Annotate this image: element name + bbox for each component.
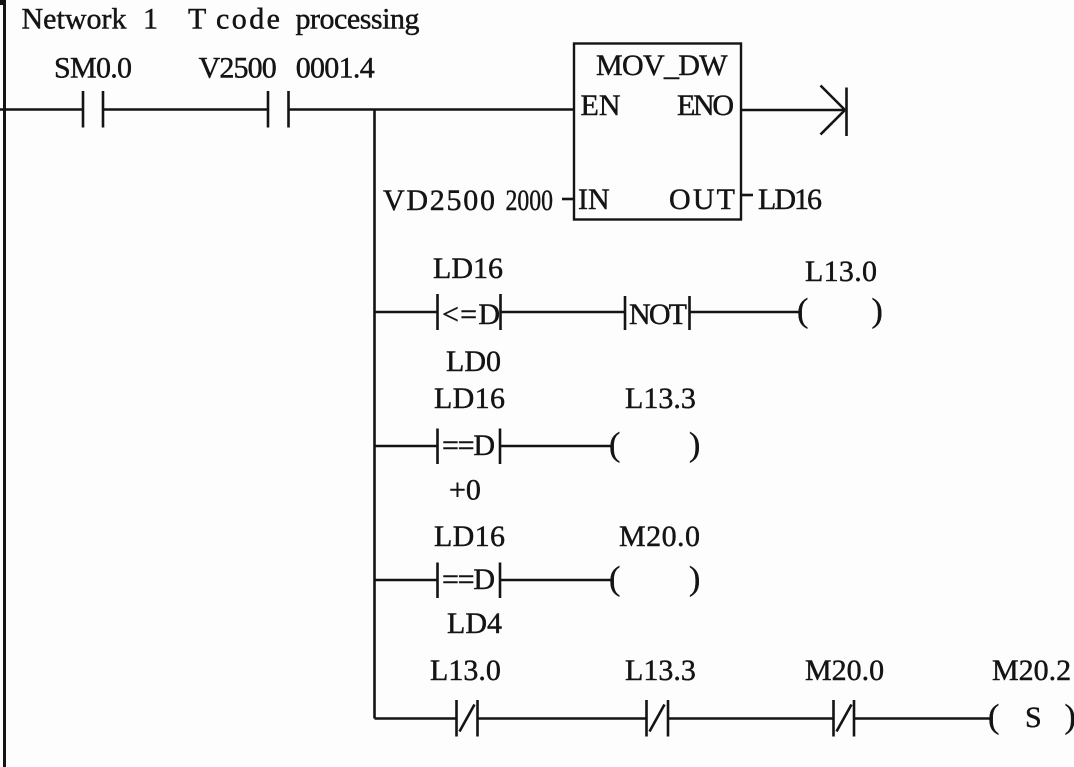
svg-text:LD4: LD4: [447, 607, 502, 640]
svg-text:V2500: V2500: [199, 52, 277, 85]
svg-text:L13.3: L13.3: [625, 654, 696, 687]
svg-text:(: (: [797, 293, 808, 330]
svg-text:LD16: LD16: [434, 520, 505, 553]
svg-text:L13.0: L13.0: [430, 654, 501, 687]
svg-text:Network: Network: [22, 3, 127, 36]
svg-text:(: (: [988, 699, 999, 736]
svg-text:): ): [872, 293, 883, 330]
svg-text:S: S: [1025, 701, 1042, 734]
svg-text:LD16: LD16: [433, 252, 503, 285]
svg-text:): ): [689, 561, 700, 598]
svg-text:SM0.0: SM0.0: [54, 52, 132, 85]
svg-text:OUT: OUT: [669, 183, 735, 216]
svg-text:): ): [1065, 699, 1074, 736]
svg-text:2000: 2000: [506, 184, 554, 217]
svg-text:+0: +0: [449, 474, 481, 507]
svg-text:code: code: [216, 3, 280, 36]
svg-text:1: 1: [143, 3, 158, 36]
svg-text:processing: processing: [296, 3, 420, 36]
svg-text:MOV_DW: MOV_DW: [596, 49, 728, 82]
svg-text:LD16: LD16: [758, 183, 822, 216]
svg-text:L13.0: L13.0: [805, 255, 877, 288]
svg-text:T: T: [188, 3, 206, 36]
svg-text:NOT: NOT: [629, 298, 687, 331]
svg-text:<=D: <=D: [442, 298, 500, 331]
svg-text:ENO: ENO: [677, 89, 734, 122]
svg-text:(: (: [609, 427, 620, 464]
svg-text:IN: IN: [578, 183, 610, 216]
svg-text:==D: ==D: [442, 429, 495, 462]
svg-text:LD0: LD0: [446, 345, 501, 378]
svg-text:==D: ==D: [442, 563, 495, 596]
svg-text:0001.4: 0001.4: [296, 52, 375, 85]
svg-text:EN: EN: [581, 89, 621, 122]
svg-text:(: (: [609, 561, 620, 598]
svg-text:M20.2: M20.2: [992, 654, 1071, 687]
svg-text:LD16: LD16: [434, 382, 505, 415]
svg-text:): ): [689, 427, 700, 464]
svg-text:VD2500: VD2500: [383, 184, 495, 217]
svg-text:M20.0: M20.0: [805, 654, 884, 687]
svg-text:M20.0: M20.0: [619, 520, 700, 553]
svg-text:L13.3: L13.3: [625, 382, 696, 415]
